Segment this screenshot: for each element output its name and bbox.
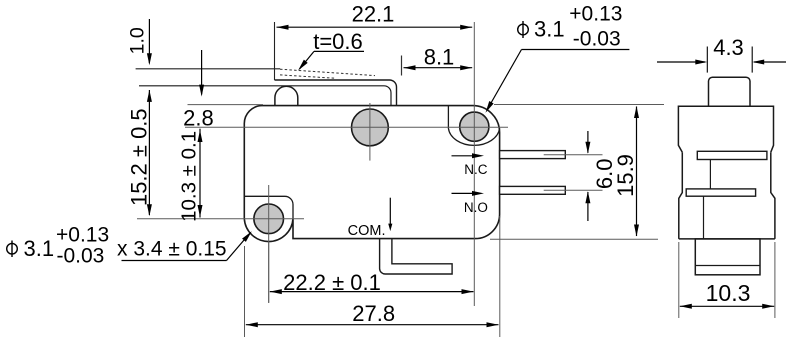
side view: body bottom edge: [679, 238, 775, 240]
main view: lever free position dashed line upper: [280, 69, 375, 75]
main view: extension line lever tip top (1.0 ref): [136, 68, 281, 70]
svg-text:22.2 ± 0.1: 22.2 ± 0.1: [283, 270, 381, 295]
svg-text:COM.: COM.: [348, 223, 386, 239]
side view: bottom block: [695, 239, 760, 275]
main view: lever bottom edge: [139, 86, 391, 106]
dimension 4.3 (side view): [657, 35, 786, 73]
main view: mounting hole top-center: [352, 109, 389, 146]
centerline vertical bottom-left hole: [268, 185, 270, 303]
dimension 27.8: [245, 216, 500, 337]
svg-text:3.1: 3.1: [24, 236, 55, 261]
centerline horizontal bottom-left hole: [137, 218, 304, 220]
side view: middle section right side: [771, 152, 775, 239]
svg-text:4.3: 4.3: [713, 35, 744, 60]
svg-text:3.1: 3.1: [534, 17, 565, 42]
side view: N.O blade edge: [686, 189, 755, 196]
dimension 10.3 (side view): [679, 242, 775, 318]
dimension 1.0: [127, 19, 152, 65]
dimension 15.2 +/- 0.5: [127, 90, 152, 216]
side view: N.C blade edge: [697, 151, 767, 159]
svg-text:t=0.6: t=0.6: [313, 29, 363, 54]
svg-text:27.8: 27.8: [352, 301, 395, 326]
svg-text:10.3: 10.3: [706, 280, 751, 306]
main view: N.C blade slot / extension line: [544, 154, 603, 156]
main view: N.C terminal blade: [500, 151, 566, 159]
main view: top-right hole boss step: [448, 106, 499, 146]
dimension 22.1: [275, 2, 473, 81]
main view: N.O blade slot / extension line: [544, 189, 603, 191]
svg-text:x 3.4 ± 0.15: x 3.4 ± 0.15: [117, 238, 227, 261]
main view: mounting hole bottom-left: [254, 204, 284, 234]
main view: COM terminal blade: [380, 239, 453, 274]
label phi 3.1 +0.13/-0.03 (top right hole callout): [483, 3, 629, 114]
dimension 15.9: [490, 105, 664, 240]
main view: switch body outline: [244, 106, 499, 242]
label t=0.6 with leader: [296, 29, 364, 72]
centerline vertical top-right hole: [473, 22, 475, 306]
svg-text:+0.13: +0.13: [56, 224, 109, 247]
svg-text:1.0: 1.0: [127, 27, 149, 54]
side view: blade connector line: [709, 160, 711, 189]
dimension 10.3 +/- 0.1: [178, 129, 203, 222]
svg-text:2.8: 2.8: [183, 106, 214, 131]
main view: hinge boss: [275, 86, 298, 105]
svg-text:8.1: 8.1: [424, 45, 455, 70]
main view: lever free position dashed line lower: [280, 75, 336, 78]
main view: N.O terminal blade: [500, 186, 566, 194]
svg-text:22.1: 22.1: [352, 2, 395, 27]
svg-text:N.O: N.O: [464, 200, 488, 215]
dimension 2.8: [183, 50, 263, 131]
label N.C with arrow: [452, 153, 488, 177]
svg-text:10.3 ± 0.1: 10.3 ± 0.1: [178, 131, 201, 222]
dimension 22.2 +/- 0.1: [269, 242, 474, 303]
main view: bottom-left hole boss step: [244, 196, 293, 218]
svg-text:+0.13: +0.13: [569, 3, 622, 26]
dimension 6.0: [585, 131, 617, 221]
main view: lever top edge (operating position): [275, 80, 397, 106]
side view: middle section left side: [679, 152, 683, 239]
svg-text:-0.03: -0.03: [573, 28, 621, 51]
svg-text:15.9: 15.9: [613, 154, 638, 197]
svg-text:N.C: N.C: [464, 162, 488, 177]
svg-text:-0.03: -0.03: [57, 245, 105, 268]
side view: inner vertical line: [703, 196, 705, 239]
side view: top block: [678, 106, 773, 152]
main view: mounting hole top-right: [460, 112, 489, 141]
label COM. with arrow: [348, 198, 393, 239]
label N.O with arrow: [452, 191, 488, 215]
dimension 8.1: [402, 45, 473, 76]
label phi 3.1 +0.13/-0.03 x 3.4 +/- 0.15 (bottom left hole callout): [7, 224, 254, 268]
centerline vertical top-center hole: [369, 103, 371, 161]
svg-text:15.2 ± 0.5: 15.2 ± 0.5: [127, 108, 152, 206]
side view: plunger: [709, 77, 751, 106]
centerline horizontal through top holes: [185, 126, 508, 128]
